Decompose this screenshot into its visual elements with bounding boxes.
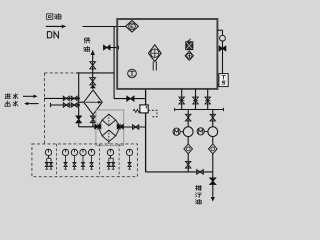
level gauge circle: [220, 35, 226, 41]
gauge valve 6: [90, 156, 93, 170]
filter drop to panel: [108, 142, 110, 144]
wire: water outlet line: [51, 103, 79, 107]
supply valve upper: [90, 62, 96, 69]
label: blowdown 排污油 (vertical): [196, 186, 202, 204]
filter changeover valve left: [95, 124, 101, 130]
gauge valve 1: [45, 156, 48, 170]
water outlet valve 1: [63, 103, 69, 107]
wire: water inlet line: [44, 97, 79, 99]
pump 2: [208, 127, 218, 137]
pressure gauge 1: [45, 149, 51, 155]
level gauge stub: [217, 30, 222, 73]
return oil flow arrow: [46, 25, 67, 29]
gauge valve 9: [128, 156, 131, 170]
gauge valve 7: [107, 156, 110, 170]
pressure gauge 5: [88, 149, 94, 155]
filter outlet valve: [133, 125, 139, 130]
pressure gauge 4: [80, 149, 86, 155]
label: DN: [47, 32, 58, 38]
label: return oil 回油: [47, 14, 61, 20]
flow arrow up into supply valves: [90, 85, 96, 88]
check valve 2: [209, 137, 218, 154]
filter changeover valve right: [117, 124, 123, 130]
duplex filter enclosure: [96, 110, 124, 145]
pressure switch spring: [133, 109, 140, 112]
water inlet valve 2: [71, 96, 77, 100]
tank outlet 3 with valve: [205, 89, 210, 110]
suction strainer: [148, 45, 161, 71]
cooler internal flow arrow: [85, 101, 101, 104]
label: water in 进水: [5, 94, 18, 99]
gauge valve 8: [111, 156, 115, 170]
return diffuser diamond: [126, 21, 139, 33]
wire: pump 2 discharge: [212, 154, 214, 172]
wire: return drop pipe: [113, 27, 115, 99]
pressure gauge 6: [107, 149, 113, 155]
wire: drain header: [146, 171, 213, 173]
filter element lower: [102, 130, 116, 142]
tank outlet 1 with valve: [179, 89, 184, 110]
motor M2: [197, 128, 208, 135]
panel divider 2: [98, 144, 100, 177]
check valve 1: [184, 137, 193, 154]
valve (closed) on return connector: [127, 96, 134, 101]
wire: bypass to filter inlet: [79, 126, 96, 128]
label: supply oil 供油 (vertical): [84, 38, 90, 52]
heater box: [186, 42, 193, 50]
tank drain stub with valve and arrow: [103, 45, 119, 50]
water inlet valve 1: [63, 96, 69, 100]
pressure switch body: [140, 105, 148, 113]
pump branch 2 suction valve: [210, 110, 215, 127]
junction dot water inlet: [78, 97, 80, 99]
dashed skid boundary left: [44, 73, 46, 144]
label: water out 出水: [5, 101, 18, 106]
breather diamond: [185, 51, 193, 60]
filter element upper: [102, 114, 116, 126]
wire: filter outlet line: [123, 126, 146, 128]
pump branch 1 suction valve: [186, 110, 191, 127]
pressure switch electric dashed line: [148, 110, 157, 117]
blowdown valve (closed): [210, 172, 216, 202]
cooler outlet valve: [90, 116, 95, 123]
wire: upper connector pipe: [77, 72, 115, 74]
pump 1: [183, 127, 193, 137]
panel divider 3: [118, 144, 120, 177]
filter outlet branches: [116, 120, 121, 136]
supply valve lower: [90, 78, 96, 85]
gauge valve 4: [73, 156, 76, 170]
heater assembly squiggle: [188, 39, 190, 42]
pressure gauge 3: [71, 149, 77, 155]
wire: water to cooler tip: [79, 101, 85, 103]
gauge valve 5: [82, 156, 85, 170]
dashed skid boundary top: [45, 72, 77, 74]
wire: return oil header: [83, 26, 126, 28]
panel divider 1: [56, 144, 58, 177]
drain header valve: [197, 170, 204, 175]
junction dot water outlet: [78, 104, 80, 106]
pressure gauge 7: [126, 149, 132, 155]
water out arrow: [24, 102, 39, 105]
wire: return-to-drain connector: [114, 98, 146, 100]
water outlet valve 2: [71, 103, 77, 107]
level controller box: [217, 74, 228, 87]
wire: cooler outlet: [92, 115, 94, 127]
bypass valve (closed): [76, 116, 81, 123]
filter inlet branches: [98, 120, 103, 136]
gauge valve 3: [64, 156, 67, 170]
pump 1 discharge valve: [186, 154, 191, 172]
motor M1: [173, 128, 183, 135]
tank outlet 2 with valve: [193, 89, 198, 110]
wire: suction header: [175, 108, 224, 111]
wire: main drain riser: [145, 89, 147, 172]
gauge valve 2: [49, 156, 53, 170]
wire: cooler bypass vertical: [78, 73, 80, 127]
thermometer: [128, 69, 137, 78]
supply line with up arrow: [91, 50, 95, 89]
oil cooler (heat exchanger): [84, 90, 102, 115]
level gauge valve: [219, 46, 226, 51]
instrument panel (dashed): [32, 144, 137, 177]
water in arrow: [23, 95, 38, 98]
pressure gauge 2: [62, 149, 68, 155]
oil tank: [117, 19, 217, 89]
